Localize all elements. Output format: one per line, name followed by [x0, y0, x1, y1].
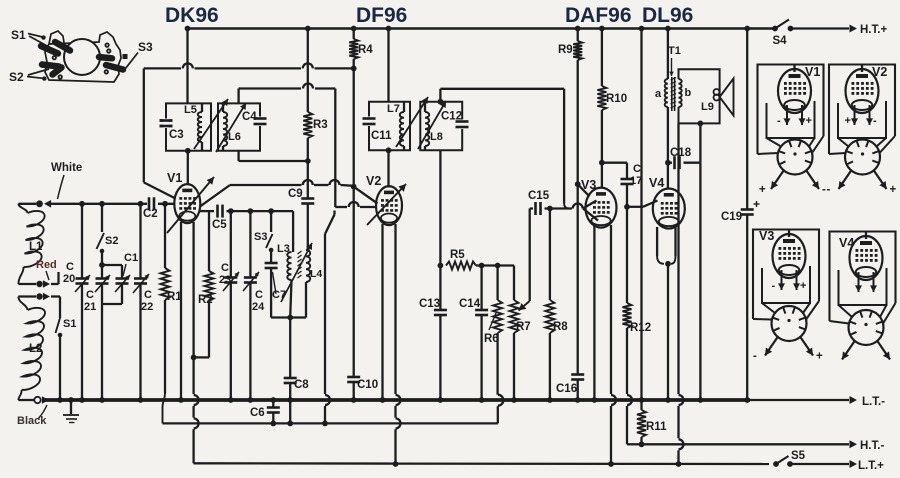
resistor R6 line — [493, 266, 502, 395]
capacitor C3 — [160, 103, 173, 127]
svg-text:S3: S3 — [138, 40, 153, 54]
wire down to L3 — [292, 211, 294, 252]
svg-text:-: - — [772, 280, 776, 292]
svg-text:C: C — [144, 289, 152, 301]
svg-text:C6: C6 — [250, 407, 265, 419]
wire a to V4 anode — [665, 107, 671, 189]
transformer T1 core — [671, 77, 677, 111]
resistor R1 line — [161, 201, 170, 423]
label R5 — [450, 249, 465, 261]
label DK96 heading — [165, 4, 219, 27]
label C24 — [252, 289, 265, 313]
wire V2 filament left — [380, 224, 386, 403]
svg-text:V2: V2 — [366, 174, 381, 188]
label DL96 heading — [642, 4, 693, 27]
node IF1 secondary top — [237, 89, 239, 104]
wire C20 to rail — [79, 284, 85, 403]
svg-text:L9: L9 — [701, 101, 714, 113]
svg-text:R2: R2 — [198, 294, 213, 306]
wire rail to R10 — [599, 26, 605, 86]
inductor L1 — [24, 211, 45, 267]
label L.T.+ — [858, 460, 884, 472]
wire L8 top to V3 area — [440, 89, 569, 209]
label Red — [36, 259, 57, 280]
wire V3 filament right — [608, 225, 616, 467]
transformer T1 secondary b — [679, 79, 682, 107]
resistor R9 — [573, 41, 582, 60]
wire C8 to rail — [287, 383, 293, 426]
label R11 — [646, 421, 667, 433]
svg-text:S2: S2 — [105, 235, 118, 247]
IF2 tuning arrows — [396, 97, 446, 149]
terminal White plug — [36, 200, 43, 207]
wire rail to R4 — [351, 26, 357, 39]
label C21 — [84, 289, 96, 313]
svg-text:V1: V1 — [167, 171, 182, 185]
label L7 — [387, 103, 400, 115]
wire C20 line top — [79, 201, 85, 278]
capacitor C10 — [347, 377, 360, 382]
svg-text:C9: C9 — [288, 188, 303, 200]
capacitor C16 — [571, 375, 584, 380]
wire V3 anode to C17 — [602, 163, 627, 179]
wire C9 to L4 — [307, 204, 309, 251]
svg-text:L1: L1 — [29, 241, 43, 253]
label Black — [17, 405, 47, 427]
wire R3 to C9 — [307, 138, 309, 198]
wire gridline down to filament bus — [322, 211, 334, 427]
terminal Red upper — [36, 272, 58, 288]
capacitor C22 line — [133, 201, 149, 403]
wire speaker return — [698, 121, 704, 163]
capacitor C18 — [668, 147, 701, 169]
wire rail to R3 — [305, 26, 311, 112]
svg-text:C16: C16 — [556, 383, 577, 395]
wire R5 to R7 — [476, 263, 514, 300]
speaker horn — [720, 79, 734, 116]
resistor R8 line — [545, 206, 554, 403]
svg-text:V2: V2 — [872, 65, 887, 79]
svg-text:White: White — [51, 162, 82, 174]
svg-text:C2: C2 — [143, 208, 158, 220]
node C24 top — [248, 208, 254, 214]
wire rail to R9 — [575, 26, 581, 41]
svg-text:T1: T1 — [668, 45, 681, 57]
label C14 — [459, 298, 481, 310]
label C16 — [556, 383, 577, 395]
capacitor C5 — [212, 205, 293, 231]
svg-text:C: C — [221, 262, 229, 274]
label C3 — [169, 129, 184, 141]
inductor L7 — [400, 102, 404, 151]
label V1 — [167, 171, 182, 185]
wire C19 to rail — [744, 215, 750, 403]
wire speaker box to LT+ — [676, 123, 684, 467]
label C12 — [441, 111, 462, 123]
wire V1 anode to mixer node — [200, 180, 354, 207]
switch S3 — [254, 211, 273, 252]
S1 pointer lines — [28, 34, 49, 48]
svg-text:L5: L5 — [184, 104, 197, 116]
V2 tuning arrow — [367, 184, 406, 225]
capacitor C11 plates — [363, 117, 376, 127]
pinout diagram V4 — [830, 232, 896, 360]
inductor L4 — [290, 250, 310, 318]
svg-text:S1: S1 — [63, 318, 76, 330]
resistor R10 — [597, 86, 606, 110]
svg-text:22: 22 — [141, 301, 153, 313]
label R12 — [630, 322, 651, 334]
label L8 — [430, 131, 443, 143]
capacitor C1 branch — [102, 265, 130, 304]
label R2 — [198, 294, 213, 306]
svg-text:C13: C13 — [419, 298, 440, 310]
wire L2 bottom to Black terminal — [18, 390, 34, 400]
capacitor C15 — [528, 190, 572, 215]
bus HT- line — [642, 440, 858, 448]
wire HT+ top rail — [188, 27, 776, 30]
svg-text:DF96: DF96 — [356, 4, 407, 27]
IF transformer box L6/C4 — [218, 103, 260, 150]
svg-text:b: b — [685, 87, 692, 99]
wire C18 right to rail — [698, 163, 704, 403]
valve V2 — [376, 186, 402, 225]
svg-text:24: 24 — [252, 301, 265, 313]
wire R9 down to V3 diode — [575, 60, 590, 197]
inductor L3 — [287, 252, 293, 320]
label R3 — [313, 119, 328, 131]
wafer switch contact bars lower-left — [42, 65, 62, 75]
svg-text:C3: C3 — [169, 129, 184, 141]
wire grid node down to R12 — [626, 207, 628, 303]
svg-text:L3: L3 — [277, 243, 290, 255]
wafer switch plate outline — [45, 31, 121, 82]
label C1 — [123, 252, 138, 276]
label C22 — [141, 289, 153, 313]
resistor R5 — [446, 262, 476, 270]
wire oscillator feedback horizontal — [144, 63, 354, 68]
capacitor C8 — [284, 378, 297, 383]
label R8 — [553, 321, 568, 333]
svg-text:+: + — [806, 115, 812, 127]
wire R9 line to C16 — [577, 184, 579, 374]
label L9 — [701, 101, 714, 113]
svg-text:21: 21 — [84, 301, 96, 313]
svg-text:R4: R4 — [358, 44, 373, 56]
L3 tuning arrow — [281, 243, 312, 302]
svg-text:S3: S3 — [254, 231, 267, 243]
svg-text:C8: C8 — [294, 379, 309, 391]
svg-text:L.T.+: L.T.+ — [858, 460, 884, 472]
svg-text:V4: V4 — [839, 236, 854, 250]
label S1 — [11, 28, 26, 42]
label White — [51, 162, 82, 199]
wire to L1 top — [18, 204, 36, 213]
wafer switch rotor circle — [64, 39, 100, 75]
label R9 — [558, 44, 573, 56]
resistor R7 potentiometer — [510, 300, 519, 403]
svg-text:L2: L2 — [29, 343, 42, 355]
switch S5 — [773, 450, 806, 467]
svg-text:S2: S2 — [9, 70, 24, 84]
pinout diagram V3 — [753, 229, 823, 363]
svg-text:H.T.-: H.T.- — [860, 440, 884, 452]
label C8 — [294, 379, 309, 391]
label C19 — [721, 211, 742, 223]
svg-text:+: + — [890, 184, 897, 196]
wire rail to T1 — [665, 26, 671, 79]
HT- bus left hook — [627, 443, 642, 445]
svg-text:R9: R9 — [558, 44, 573, 56]
resistor R2 — [194, 211, 214, 357]
svg-text:V1: V1 — [805, 65, 820, 79]
node IF2 primary bottom — [386, 147, 392, 187]
wire V1 filament left — [178, 222, 184, 403]
svg-text:C: C — [86, 289, 94, 301]
label C20 — [63, 261, 75, 285]
svg-text:C1: C1 — [124, 252, 138, 264]
svg-text:+: + — [759, 184, 766, 196]
svg-text:C12: C12 — [441, 111, 462, 123]
label C6 — [250, 407, 265, 419]
S3 pointer line — [123, 53, 139, 70]
label L.T.- — [862, 396, 885, 408]
resistor R3 — [303, 112, 312, 138]
wafer switch rivets — [53, 43, 111, 78]
svg-text:-: - — [822, 184, 826, 196]
valve V1 — [174, 184, 200, 223]
wire S2 to C21 node — [99, 251, 105, 268]
svg-text:R3: R3 — [313, 119, 328, 131]
label L6 — [228, 131, 241, 143]
node IF1 primary bottom — [185, 148, 191, 184]
svg-text:C18: C18 — [670, 147, 692, 159]
svg-text:H.T.+: H.T.+ — [860, 24, 887, 36]
label L1 — [29, 241, 43, 253]
svg-text:S1: S1 — [11, 28, 26, 42]
terminal Black — [34, 396, 49, 404]
svg-text:DL96: DL96 — [642, 4, 693, 27]
bus LT+ line — [194, 462, 769, 465]
speaker circuit box — [679, 69, 720, 123]
svg-text:Red: Red — [36, 259, 57, 271]
capacitor C21 trimmer — [95, 265, 110, 292]
plug arrow at White — [44, 200, 51, 208]
wire C17 to V4 grid node — [624, 184, 657, 210]
resistor R12 — [623, 303, 632, 328]
pinout diagram V2 — [827, 65, 897, 197]
svg-text:S4: S4 — [773, 35, 788, 47]
inductor L8 — [425, 102, 429, 151]
label DF96 heading — [356, 4, 407, 27]
capacitor C12 plates — [456, 120, 469, 130]
wire left end down to V1 grid — [144, 68, 176, 198]
valve V3 — [586, 188, 617, 228]
wire V1 anode — [187, 183, 189, 185]
wire rail to V4 grid area — [639, 26, 645, 403]
L3/L4 core ticks — [298, 251, 302, 278]
C15 wire hop over R9 line — [573, 204, 583, 209]
svg-text:C: C — [633, 163, 641, 175]
svg-text:R10: R10 — [606, 93, 627, 105]
svg-text:R6: R6 — [484, 333, 499, 345]
label C11 — [371, 130, 392, 142]
wire L2 top — [18, 297, 36, 311]
wire V1 filament right — [191, 222, 199, 463]
svg-text:+: + — [800, 280, 806, 292]
wire R4 junction down to V2 injection — [351, 68, 378, 203]
wire L3 node to C8 — [289, 318, 291, 378]
svg-text:V3: V3 — [581, 178, 596, 192]
svg-text:L.T.-: L.T.- — [862, 396, 885, 408]
label DAF96 heading — [565, 4, 632, 27]
wire L1 bottom to Red terminal — [18, 267, 36, 284]
IF transformer box C3/L5 — [166, 103, 211, 150]
svg-text:DK96: DK96 — [165, 4, 219, 27]
label C7 — [272, 272, 286, 301]
wire L8 bottom down — [438, 150, 444, 268]
node S3 top — [268, 208, 274, 214]
R7 wiper — [519, 209, 530, 311]
svg-text:C: C — [66, 261, 74, 273]
svg-text:-: - — [753, 351, 757, 363]
switch S1 — [56, 297, 77, 403]
label H.T.- — [860, 440, 884, 452]
label C4 — [242, 111, 257, 123]
resistor R11 — [637, 400, 646, 447]
label R1 — [167, 291, 182, 303]
label L3 — [277, 243, 290, 255]
label S2 — [9, 70, 24, 84]
capacitor C23 line — [223, 211, 239, 403]
resistor R4 — [349, 39, 358, 59]
label S3 — [138, 40, 153, 54]
label b — [685, 87, 692, 99]
capacitor C4 plates — [254, 117, 267, 127]
wire V2 filament right — [393, 224, 401, 467]
svg-text:S5: S5 — [791, 450, 806, 462]
wire V1 cathode row — [200, 210, 214, 212]
wafer switch contact bars upper-left — [41, 42, 70, 54]
wire R10 to V3 anode — [599, 110, 605, 188]
pinout diagram V1 — [758, 65, 827, 197]
capacitor C17 — [621, 179, 634, 184]
svg-text:-: - — [873, 115, 877, 127]
capacitor C24 line — [243, 211, 259, 403]
svg-text:C7: C7 — [272, 289, 286, 301]
svg-text:V3: V3 — [759, 229, 774, 243]
svg-text:L7: L7 — [387, 103, 400, 115]
wire C21 to rail — [99, 284, 105, 403]
svg-text:C15: C15 — [528, 190, 550, 202]
wire R4 line down to C10 — [353, 187, 355, 377]
label L4 — [310, 268, 322, 280]
label C10 — [357, 379, 378, 391]
capacitor C19 electrolytic — [741, 201, 760, 215]
IF2 box C11/L7 — [369, 102, 410, 151]
IF2 box L8/C12 — [420, 102, 462, 151]
svg-text:L8: L8 — [430, 131, 443, 143]
label L2 — [29, 343, 42, 355]
node IF2 secondary top — [438, 89, 444, 105]
ground symbol — [63, 397, 79, 422]
svg-text:L6: L6 — [228, 131, 241, 143]
svg-text:-: - — [827, 184, 831, 196]
capacitor C6 — [267, 397, 280, 426]
svg-text:L4: L4 — [310, 268, 322, 280]
switch S4 — [772, 20, 793, 48]
svg-text:R11: R11 — [646, 421, 667, 433]
svg-text:DAF96: DAF96 — [565, 4, 632, 27]
label V3 — [581, 178, 596, 192]
label R4 — [358, 44, 373, 56]
capacitor C9 — [301, 199, 314, 204]
svg-text:23: 23 — [219, 274, 231, 286]
valve V4 — [653, 189, 685, 229]
wafer switch contact bars right — [99, 57, 123, 70]
svg-text:C5: C5 — [212, 219, 227, 231]
label R7 — [516, 321, 531, 333]
wire S5 to LT+ arrow — [790, 460, 857, 468]
S2 pointer lines — [27, 69, 49, 81]
bus LT- heavy rail — [42, 398, 750, 402]
label C17 — [630, 163, 642, 187]
svg-text:V4: V4 — [649, 176, 664, 190]
bus filament A — [163, 395, 504, 424]
wire R4 to junction — [351, 59, 357, 71]
wire rail to IF1 box — [185, 26, 191, 104]
svg-text:R8: R8 — [553, 321, 568, 333]
capacitor C14 line — [475, 266, 488, 403]
capacitor C7 — [265, 250, 291, 318]
svg-text:R7: R7 — [516, 321, 531, 333]
label C9 — [288, 188, 303, 200]
inductor L2 — [22, 308, 45, 390]
wire C10 to rail — [351, 382, 357, 403]
label V4 — [649, 176, 664, 190]
wire V2 grid — [335, 202, 377, 207]
switch S2 — [97, 201, 119, 253]
capacitor C20 trimmer — [75, 275, 90, 292]
wire into V3 grid — [583, 201, 598, 221]
wire L6 bottom to R3 node — [239, 151, 311, 164]
wire V3 filament left — [592, 226, 598, 403]
label H.T.+ — [860, 24, 887, 36]
svg-text:R5: R5 — [450, 249, 465, 261]
wire S4 to HT+ arrow — [791, 25, 858, 33]
label R6 — [484, 313, 499, 345]
wire aerial to V1 grid — [51, 203, 175, 205]
IF1 tuning arrows — [194, 99, 246, 152]
wire R12 to HT- bus — [627, 328, 632, 444]
label a — [655, 88, 662, 100]
svg-text:20: 20 — [63, 273, 75, 285]
svg-text:C4: C4 — [242, 111, 257, 123]
label C13 — [419, 298, 440, 310]
wire V4 filaments join — [657, 227, 675, 403]
inductor L6 — [223, 103, 227, 150]
capacitor C3 plates — [160, 119, 173, 129]
label C23 — [219, 262, 231, 286]
V1 tuning arrow — [167, 177, 214, 233]
wire C16 to rail — [575, 380, 581, 403]
wire rail to LT- arrow — [750, 396, 857, 404]
terminal L2 upper — [36, 293, 60, 301]
transformer T1 primary a — [665, 79, 668, 107]
capacitor C2 — [143, 196, 158, 220]
svg-text:Black: Black — [17, 415, 47, 427]
label T1 — [668, 45, 681, 76]
